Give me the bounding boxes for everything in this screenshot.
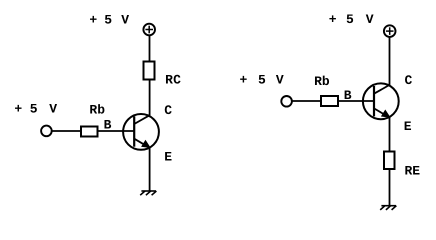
svg-text:b: b <box>97 102 105 117</box>
svg-text:V: V <box>276 73 284 88</box>
svg-text:5: 5 <box>30 102 38 117</box>
svg-text:R: R <box>314 74 322 89</box>
resistor Rb (left) <box>81 127 98 137</box>
transistor Q2 <box>363 83 399 119</box>
ground (left circuit) <box>140 191 156 195</box>
ground (right circuit) <box>380 206 396 210</box>
svg-text:R: R <box>165 72 173 87</box>
label +5V supply (left circuit) <box>89 13 129 28</box>
svg-text:E: E <box>412 163 420 178</box>
resistor RC <box>144 62 155 80</box>
label +5V input (right circuit) <box>240 73 284 88</box>
wire emitter to RE <box>389 117 391 151</box>
svg-text:5: 5 <box>258 73 266 88</box>
svg-text:E: E <box>404 119 412 134</box>
svg-text:C: C <box>164 103 172 118</box>
wire input to Rb (right) <box>293 100 322 102</box>
label +5V supply (right circuit) <box>329 12 374 27</box>
svg-text:R: R <box>405 163 413 178</box>
input terminal (left circuit) <box>41 126 52 137</box>
wire input to Rb <box>52 130 81 132</box>
wire supply to collector (right) <box>389 37 391 85</box>
wire RC to collector <box>149 81 151 116</box>
svg-text:C: C <box>173 72 181 87</box>
svg-text:+: + <box>89 13 97 28</box>
transistor Q1 <box>123 114 159 150</box>
svg-text:C: C <box>405 73 413 88</box>
label Rb (right) <box>314 74 330 89</box>
svg-text:5: 5 <box>104 13 112 28</box>
svg-text:5: 5 <box>346 12 354 27</box>
svg-text:V: V <box>49 102 57 117</box>
svg-text:V: V <box>366 12 374 27</box>
svg-text:b: b <box>322 74 330 89</box>
svg-text:+: + <box>240 73 248 88</box>
wire RE to ground (right) <box>389 170 391 206</box>
resistor RE <box>384 152 395 170</box>
input terminal (right circuit) <box>281 96 292 107</box>
svg-text:+: + <box>329 12 337 27</box>
supply terminal (left circuit) <box>143 24 155 36</box>
svg-text:R: R <box>89 102 97 117</box>
wire Rb to base <box>99 130 135 132</box>
wire supply to RC <box>149 36 151 62</box>
wire Rb to base (right) <box>339 100 374 102</box>
svg-text:V: V <box>121 13 129 28</box>
label RC <box>165 72 181 87</box>
wire emitter to ground (left) <box>149 148 151 191</box>
resistor Rb (right) <box>321 96 338 106</box>
label Rb (left) <box>89 102 105 117</box>
svg-text:E: E <box>164 150 172 165</box>
label +5V input (left circuit) <box>14 102 57 117</box>
label RE <box>405 163 421 178</box>
svg-text:+: + <box>14 102 22 117</box>
supply terminal (right circuit) <box>384 25 396 37</box>
